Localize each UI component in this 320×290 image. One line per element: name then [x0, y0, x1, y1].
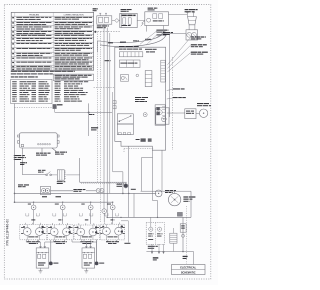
svg-text:ELECTRICAL: ELECTRICAL	[180, 267, 196, 270]
svg-text:P/N 8113P446-60: P/N 8113P446-60	[6, 219, 10, 246]
svg-text:CORRECTIVE ACTION: CORRECTIVE ACTION	[64, 13, 85, 16]
svg-text:SCHEMATIC: SCHEMATIC	[181, 272, 196, 275]
svg-text:PROBLEM: PROBLEM	[29, 14, 39, 16]
